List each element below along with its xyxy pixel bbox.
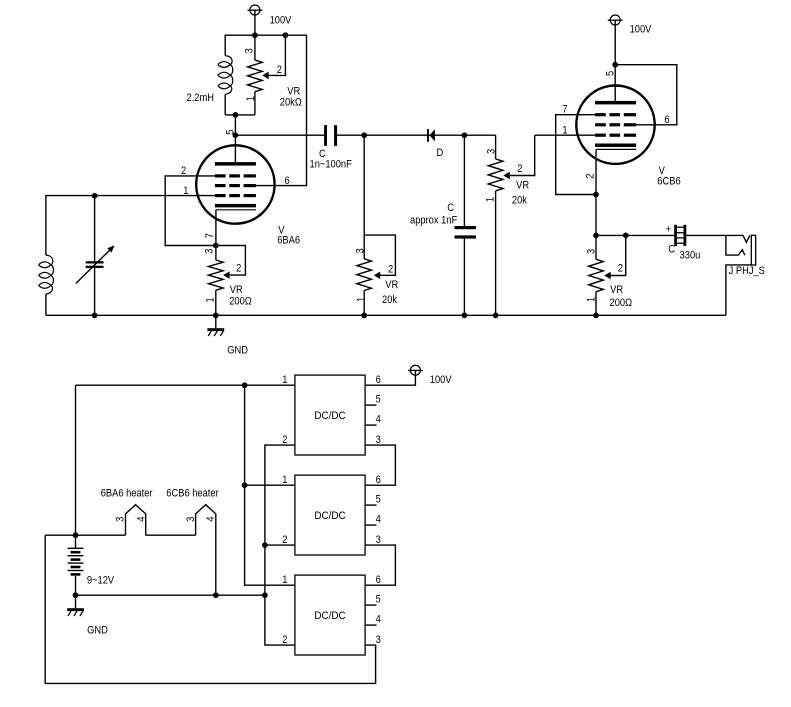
- jack J PHJ_S ring contact: [726, 235, 745, 255]
- wire: 6CB6 pin7 tie to cathode: [556, 115, 596, 195]
- svg-text:6: 6: [376, 574, 381, 586]
- svg-text:J PHJ_S: J PHJ_S: [729, 266, 765, 278]
- junction: 6CB6 cathode output node: [593, 233, 599, 239]
- capacitor C 1n~100nF: [324, 125, 327, 146]
- box1 pin5 stub: [365, 404, 376, 406]
- vacuum tube V 6CB6: [576, 86, 654, 164]
- jack J PHJ_S plug body: [751, 235, 755, 265]
- svg-text:1: 1: [282, 474, 287, 486]
- svg-text:6CB6: 6CB6: [657, 176, 681, 188]
- svg-text:2: 2: [282, 534, 287, 546]
- svg-text:GND: GND: [87, 625, 108, 637]
- junction: 6CB6 pin5 node: [612, 62, 618, 68]
- svg-text:2: 2: [585, 173, 597, 178]
- svg-text:4: 4: [136, 516, 148, 521]
- svg-text:C: C: [447, 202, 454, 214]
- svg-text:5: 5: [605, 71, 617, 76]
- svg-text:2.2mH: 2.2mH: [187, 92, 214, 104]
- wire: main coupling line (plate to C): [235, 134, 324, 136]
- svg-text:4: 4: [206, 516, 218, 521]
- capacitor C 330u (electrolytic): [674, 225, 677, 246]
- variable capacitor (tuning): [94, 196, 96, 262]
- svg-text:3: 3: [376, 634, 381, 646]
- svg-text:5: 5: [376, 594, 381, 606]
- svg-text:6BA6: 6BA6: [277, 235, 300, 247]
- battery 9~12V: [75, 535, 77, 548]
- junction: VR 20k on ground rail: [361, 312, 367, 318]
- wire: +100V rail / pin6 feedback drop of 6BA6: [225, 35, 306, 185]
- svg-text:2: 2: [388, 264, 393, 276]
- heater of 6BA6 (pins 3-4): [126, 505, 146, 536]
- svg-text:1: 1: [282, 374, 287, 386]
- resistor VR 200&#937; (6CB6 cathode): [595, 235, 597, 259]
- svg-text:4: 4: [376, 614, 381, 626]
- junction: pin7-cathode tie: [593, 192, 599, 198]
- junction: battery- on pin2 chain: [262, 592, 268, 598]
- svg-text:1: 1: [282, 574, 287, 586]
- svg-text:6: 6: [664, 114, 669, 126]
- svg-text:1n~100nF: 1n~100nF: [310, 159, 352, 171]
- DC/DC converter box 2: [295, 475, 365, 555]
- wire: output stack return loop: [45, 535, 375, 683]
- wire: 6CB6 plate supply stem: [614, 20, 616, 104]
- wire: C to detector line: [337, 134, 496, 136]
- svg-text:6CB6 heater: 6CB6 heater: [166, 488, 219, 500]
- svg-text:+: +: [666, 224, 671, 236]
- junction: power stem on rail: [252, 32, 258, 38]
- svg-text:C: C: [668, 244, 675, 256]
- junction: plate node on main wire: [233, 132, 239, 138]
- svg-text:100V: 100V: [630, 24, 652, 36]
- wire: box1 pin6 to 100V flag: [365, 370, 415, 385]
- power flag 100V (right): [610, 15, 620, 25]
- svg-text:5: 5: [376, 394, 381, 406]
- svg-text:approx 1nF: approx 1nF: [410, 215, 457, 227]
- svg-text:2: 2: [277, 65, 282, 77]
- svg-text:6: 6: [376, 374, 381, 386]
- junction: C approx-1nF on ground rail: [462, 312, 468, 318]
- DC/DC converter box 1: [295, 375, 365, 455]
- resistor VR1 20k&#937; (plate pot): [254, 35, 256, 60]
- vacuum tube V 6BA6: [196, 145, 274, 223]
- svg-text:4: 4: [376, 414, 381, 426]
- svg-text:3: 3: [244, 48, 256, 53]
- svg-text:5: 5: [376, 494, 381, 506]
- svg-text:1: 1: [485, 197, 497, 202]
- svg-text:2: 2: [181, 165, 186, 177]
- junction: battery- node: [73, 592, 79, 598]
- junction: coil-VR1 node to pin5: [233, 112, 239, 118]
- antenna coil: [39, 255, 54, 294]
- diode D (detector): [427, 129, 429, 142]
- wire: 6BA6 pin2 grid return + VR 200 loop: [165, 176, 245, 275]
- svg-text:200Ω: 200Ω: [610, 297, 633, 309]
- junction: 6CB6 heater pin4 on - rail: [213, 592, 219, 598]
- wire: pin2 chain vertical: [265, 445, 295, 645]
- svg-text:1: 1: [356, 297, 368, 302]
- junction: box2 pin2 on chain: [262, 542, 268, 548]
- svg-text:DC/DC: DC/DC: [314, 611, 346, 623]
- box2 pin5 stub: [365, 504, 376, 506]
- svg-text:3: 3: [115, 516, 127, 521]
- wiper of VR1 (pin2): [262, 72, 268, 80]
- svg-text:VR: VR: [230, 284, 243, 296]
- ground symbol GND (top): [215, 315, 217, 328]
- wire: box2 pin3 to box3 pin6: [365, 545, 395, 585]
- svg-text:1: 1: [562, 125, 567, 137]
- resistor VR 20k (regeneration pot): [495, 135, 497, 159]
- wire: power stem to +100V rail: [254, 10, 256, 35]
- wire: output line to C 330u: [596, 234, 674, 236]
- inductor 2.2mH: [218, 56, 233, 95]
- svg-text:3: 3: [376, 434, 381, 446]
- svg-text:200Ω: 200Ω: [229, 296, 252, 308]
- ground symbol GND (bottom): [75, 595, 77, 608]
- svg-text:VR: VR: [610, 284, 623, 296]
- wire: pin1 branch vertical: [245, 385, 295, 585]
- wire: ground rail: [46, 314, 726, 316]
- svg-text:D: D: [437, 147, 444, 159]
- svg-text:3: 3: [586, 249, 598, 254]
- svg-text:5: 5: [225, 129, 237, 134]
- svg-text:2: 2: [618, 263, 623, 275]
- svg-text:VR: VR: [516, 180, 529, 192]
- wire: coil/VR1 bottom tie: [225, 114, 255, 116]
- box3 pin5 stub: [365, 604, 376, 606]
- svg-text:3: 3: [185, 516, 197, 521]
- junction: 6BA6 cathode node: [213, 243, 219, 249]
- power flag 100V (output): [410, 365, 420, 375]
- svg-text:2: 2: [517, 163, 522, 175]
- box2 pin4 stub: [365, 524, 376, 526]
- wire: jack sleeve to ground rail: [726, 265, 751, 315]
- wire: battery- rail: [76, 594, 265, 596]
- junction: battery+ node: [73, 532, 79, 538]
- svg-text:6BA6 heater: 6BA6 heater: [101, 488, 153, 500]
- power flag 100V (plate supply, left): [250, 5, 260, 15]
- junction: box2 pin1 branch: [242, 482, 248, 488]
- svg-text:3: 3: [355, 248, 367, 253]
- DC/DC converter box 3: [295, 575, 365, 655]
- junction: tuning cap on ground rail: [92, 312, 98, 318]
- svg-text:7: 7: [562, 104, 567, 116]
- resistor VR 20k (AF gain pot): [363, 135, 365, 259]
- svg-text:2: 2: [282, 634, 287, 646]
- wire: 6BA6 pin5 plate lead: [234, 115, 236, 162]
- heater of 6CB6 (pins 3-4): [196, 505, 216, 596]
- wire: 6CB6 pin6 tie to pin5: [615, 65, 677, 125]
- svg-text:2: 2: [236, 263, 241, 275]
- wire: 6CB6 cathode (pin2) down: [595, 150, 597, 236]
- junction: node at VR 20k (AF gain) top: [361, 132, 367, 138]
- svg-text:330u: 330u: [680, 250, 701, 262]
- svg-text:3: 3: [376, 534, 381, 546]
- wiper arrow of VR 200 (6BA6 cathode): [223, 271, 229, 279]
- svg-text:DC/DC: DC/DC: [314, 411, 346, 423]
- svg-text:2: 2: [282, 434, 287, 446]
- svg-text:3: 3: [486, 149, 498, 154]
- junction: VR1 wiper on rail: [283, 32, 289, 38]
- wire: heater feed: [45, 534, 125, 536]
- svg-text:6: 6: [376, 474, 381, 486]
- jack J PHJ_S tip contact: [743, 235, 750, 242]
- wiper loop of VR 20k (AF gain): [364, 235, 395, 275]
- wire: box1 pin3 to box2 pin6: [365, 445, 395, 485]
- wiper of regen VR 20k to 6CB6 grid: [503, 172, 509, 180]
- svg-text:100V: 100V: [270, 15, 292, 27]
- junction: pin1 branch on + rail: [242, 382, 248, 388]
- svg-text:20k: 20k: [382, 294, 398, 306]
- svg-text:3: 3: [204, 248, 216, 253]
- junction: regen VR on ground rail: [493, 312, 499, 318]
- capacitor C approx 1nF: [463, 135, 465, 226]
- wire: DC/DC input+ rail: [76, 384, 295, 386]
- svg-text:20k: 20k: [512, 195, 528, 207]
- svg-text:20kΩ: 20kΩ: [280, 97, 302, 109]
- wire: C 330u to jack: [686, 234, 743, 236]
- svg-text:9~12V: 9~12V: [87, 575, 114, 587]
- svg-text:1: 1: [245, 96, 257, 101]
- svg-text:1: 1: [183, 186, 188, 198]
- svg-text:DC/DC: DC/DC: [314, 511, 346, 523]
- junction: VR200-2 on ground rail: [593, 312, 599, 318]
- svg-text:VR: VR: [287, 86, 300, 98]
- svg-text:7: 7: [204, 233, 216, 238]
- svg-text:6: 6: [285, 175, 290, 187]
- svg-text:1: 1: [205, 297, 217, 302]
- junction: node at C approx-1nF: [462, 132, 468, 138]
- svg-text:100V: 100V: [430, 374, 452, 386]
- svg-text:1: 1: [586, 297, 598, 302]
- resistor VR 200&#937; (6BA6 cathode): [215, 210, 217, 260]
- wiper loop of VR 200 (6CB6): [611, 235, 626, 275]
- svg-text:4: 4: [376, 514, 381, 526]
- svg-text:VR: VR: [385, 279, 398, 291]
- svg-text:GND: GND: [227, 345, 248, 357]
- wire: 6BA6 pin1 grid to tank circuit: [46, 196, 215, 256]
- junction: tank top node: [92, 193, 98, 199]
- box1 pin4 stub: [365, 424, 376, 426]
- junction: VR200-2 wiper loop top: [623, 233, 629, 239]
- junction: VR200 on ground rail: [213, 312, 219, 318]
- box3 pin4 stub: [365, 624, 376, 626]
